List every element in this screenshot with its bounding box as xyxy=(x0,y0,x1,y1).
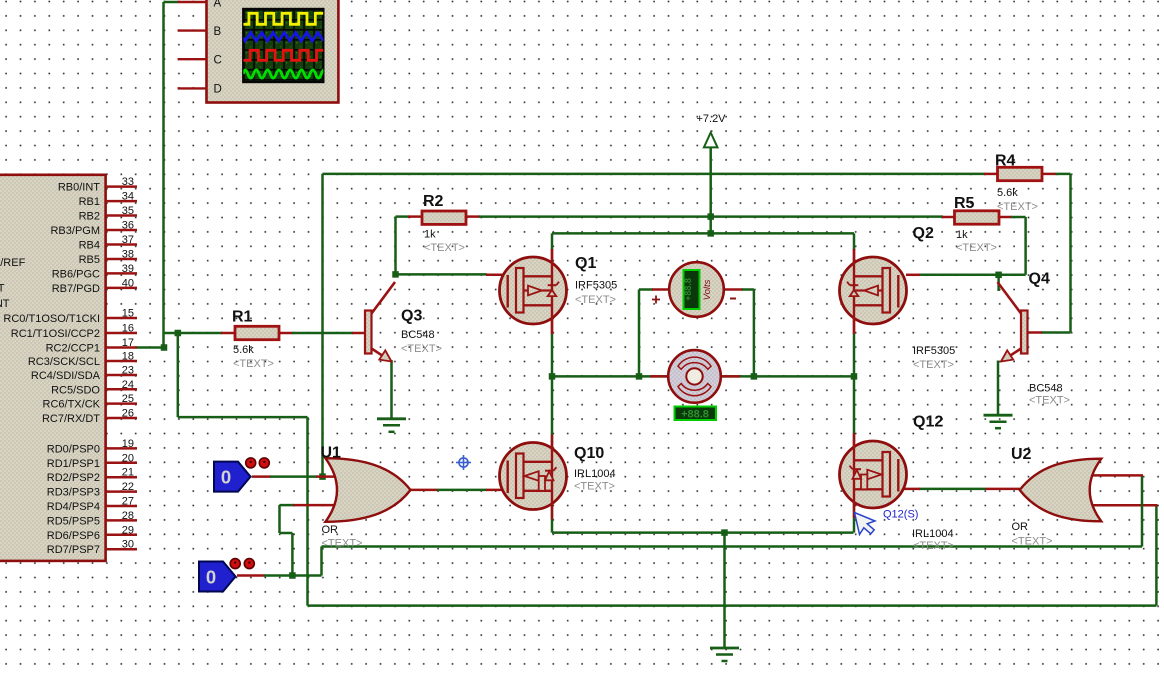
svg-text:30: 30 xyxy=(122,539,134,551)
wire bottom rail y605 to U2 input B xyxy=(308,604,1157,607)
transistor Q1 IRF5305 p-mosfet xyxy=(500,249,567,334)
svg-text:28: 28 xyxy=(122,510,134,522)
wire staircase up 2 xyxy=(278,505,281,533)
node junction source rail xyxy=(707,230,714,237)
svg-text:RC5/SDO: RC5/SDO xyxy=(51,384,100,396)
wire R5 left pin xyxy=(942,216,957,219)
wire Q3 base pin xyxy=(352,332,366,335)
wire Q4 base horizontal xyxy=(1041,331,1071,334)
svg-text:5.6k: 5.6k xyxy=(233,344,254,356)
wire voltmeter right vertical xyxy=(753,290,756,377)
svg-text:<TEXT>: <TEXT> xyxy=(956,242,997,254)
pin 40 RB7/PGD xyxy=(52,277,137,295)
pin 37 RB4 xyxy=(79,234,137,252)
svg-text:39: 39 xyxy=(122,263,134,275)
motor M1 xyxy=(668,350,721,403)
wire logic state 1 to U1 input A red xyxy=(252,475,271,478)
transistor Q12 IRL1004 n-mosfet mirrored xyxy=(840,433,907,518)
svg-text:RD7/PSP7: RD7/PSP7 xyxy=(47,544,100,556)
svg-text:34: 34 xyxy=(122,191,134,203)
wire branch down from RC1 node xyxy=(177,333,180,417)
oscilloscope pin C xyxy=(178,58,208,60)
wire Q12 gate pin xyxy=(897,488,920,491)
voltmeter minus mark xyxy=(730,298,736,300)
svg-text:T: T xyxy=(0,283,5,295)
svg-text:<TEXT>: <TEXT> xyxy=(1012,536,1053,548)
pin 39 RB6/PGC xyxy=(52,263,137,281)
wire Q1 gate pin xyxy=(486,274,509,277)
node junction R2/Q3 collector/Q1 gate xyxy=(392,271,399,278)
svg-text:20: 20 xyxy=(122,452,134,464)
svg-text:19: 19 xyxy=(122,438,134,450)
wire Q10 drain from motor rail xyxy=(551,376,554,442)
svg-text:<TEXT>: <TEXT> xyxy=(574,481,615,493)
oscilloscope pin A xyxy=(178,1,208,3)
svg-text:RD3/PSP3: RD3/PSP3 xyxy=(47,487,100,499)
svg-text:RB0/INT: RB0/INT xyxy=(58,182,100,194)
logic state input 2 xyxy=(199,562,236,592)
svg-text:NT: NT xyxy=(0,298,10,310)
node junction supply rail xyxy=(707,213,714,220)
svg-text:15: 15 xyxy=(122,308,134,320)
origin marker crosshair xyxy=(456,455,471,470)
svg-text:B: B xyxy=(214,26,222,38)
wire voltmeter right horizontal xyxy=(742,288,754,291)
svg-text:R2: R2 xyxy=(423,193,444,210)
svg-text:<TEXT>: <TEXT> xyxy=(322,538,363,550)
logic state 1 indicator dots xyxy=(246,458,270,468)
wire voltmeter left vertical xyxy=(638,290,641,377)
svg-text:33: 33 xyxy=(122,176,134,188)
oscilloscope pin D xyxy=(178,87,208,89)
wire Q4 collector vertical xyxy=(997,275,1000,291)
oscilloscope body xyxy=(207,0,339,103)
wire right vertical up to U2 input A xyxy=(1141,475,1144,546)
svg-text:21: 21 xyxy=(122,467,134,479)
pin 24 RC5/SDO xyxy=(51,379,137,397)
svg-text:22: 22 xyxy=(122,481,134,493)
svg-text:R5: R5 xyxy=(954,195,975,212)
wire lower logic to y546 corner xyxy=(292,574,321,577)
resistor R2 xyxy=(422,211,466,224)
wire y546 rail to U2 input A xyxy=(322,545,1143,548)
wire voltmeter right pin xyxy=(723,288,743,291)
svg-text:RC6/TX/CK: RC6/TX/CK xyxy=(43,399,101,411)
pin 26 RC7/RX/DT xyxy=(42,408,137,426)
svg-text:R1: R1 xyxy=(232,309,253,326)
wire bottom H-bridge rail xyxy=(552,531,854,534)
svg-text:RD1/PSP1: RD1/PSP1 xyxy=(47,458,100,470)
voltmeter xyxy=(669,262,724,317)
node junction motor rail right xyxy=(851,373,858,380)
oscilloscope screen xyxy=(243,9,323,82)
svg-text:<TEXT>: <TEXT> xyxy=(1029,395,1070,407)
wire R2 left pin xyxy=(408,215,423,218)
pin 15 RC0/T1OSO/T1CKI xyxy=(3,308,137,326)
wire scope channel A stub xyxy=(164,1,179,4)
pin 17 RC2/CCP1 xyxy=(46,337,137,355)
transistor Q10 IRL1004 n-mosfet xyxy=(500,435,567,520)
svg-text:BC548: BC548 xyxy=(1029,383,1063,395)
svg-text:Q2: Q2 xyxy=(913,225,934,242)
oscilloscope pin B xyxy=(178,29,208,31)
wire Q2 gate node horizontal xyxy=(919,274,1026,277)
wire ground stem xyxy=(723,533,726,649)
wire Q2 source to motor rail xyxy=(853,334,856,377)
wire U1 input B pin xyxy=(293,504,338,507)
wire R5 corner down to Q2 gate node xyxy=(1024,217,1027,275)
svg-text:R4: R4 xyxy=(995,153,1016,170)
svg-text:+88.8: +88.8 xyxy=(681,408,709,420)
svg-text:<TEXT>: <TEXT> xyxy=(424,242,465,254)
svg-text:RC0/T1OSO/T1CKI: RC0/T1OSO/T1CKI xyxy=(3,313,100,325)
wire motor rail xyxy=(552,375,854,378)
wire U1 output pin xyxy=(410,489,438,492)
wire staircase to U1 input B xyxy=(280,504,295,507)
wire R4 right pin xyxy=(1041,173,1056,176)
node junction voltmeter right tap xyxy=(751,373,758,380)
svg-text:1k: 1k xyxy=(956,229,968,241)
logic state 2 indicator dots xyxy=(230,559,254,569)
pin 36 RB3/PGM xyxy=(50,220,137,238)
svg-text:<TEXT>: <TEXT> xyxy=(913,540,954,552)
node junction on RC1 wire at branch xyxy=(175,330,182,337)
svg-text:RC3/SCK/SCL: RC3/SCK/SCL xyxy=(28,356,100,368)
wire corner up to y546 rail xyxy=(320,547,323,576)
wire R1 right lead xyxy=(277,332,293,335)
svg-text:Q12(S): Q12(S) xyxy=(883,509,918,521)
wire Q12 source down xyxy=(853,509,856,533)
svg-text:RC7/RX/DT: RC7/RX/DT xyxy=(42,413,100,425)
svg-text:RB1: RB1 xyxy=(79,196,100,208)
pin 21 RD2/PSP2 xyxy=(47,467,137,485)
voltmeter plus mark xyxy=(652,296,660,304)
wire R4 rail horizontal xyxy=(323,173,986,176)
svg-text:RD6/PSP6: RD6/PSP6 xyxy=(47,530,100,542)
pin 16 RC1/T1OSI/CCP2 xyxy=(11,323,137,341)
svg-text:RD0/PSP0: RD0/PSP0 xyxy=(47,443,100,455)
pin 35 RB2 xyxy=(79,205,137,223)
wire R5 right pin xyxy=(996,216,1012,219)
wire logic state 1 to U1 input A green xyxy=(270,475,317,478)
wire Q2 gate pin xyxy=(906,274,920,277)
svg-text:IRF5305: IRF5305 xyxy=(575,280,617,292)
wire logic state 2 to junction xyxy=(264,574,294,577)
resistor R4 xyxy=(998,167,1043,180)
or-gate U1 xyxy=(325,458,410,522)
svg-text:RC1/T1OSI/CCP2: RC1/T1OSI/CCP2 xyxy=(11,328,100,340)
oscilloscope waveforms A B C D xyxy=(243,13,327,78)
wire right vertical up to U2 input B xyxy=(1155,505,1158,605)
svg-text:RB4: RB4 xyxy=(79,240,100,252)
pin 34 RB1 xyxy=(79,191,137,209)
wire R4 rail left vertical top corner xyxy=(321,174,324,478)
wire R2 left lead connection xyxy=(396,215,410,218)
wire Q1 source to motor rail xyxy=(551,334,554,377)
svg-text:Q12: Q12 xyxy=(913,414,943,431)
ground below Q4 xyxy=(984,415,1013,428)
node wire end pin17 junction xyxy=(161,344,168,351)
resistor R5 xyxy=(955,211,1000,224)
pin 19 RD0/PSP0 xyxy=(47,438,137,456)
wire Q4 emitter to ground xyxy=(997,361,1000,416)
wire Q12 drain from motor rail xyxy=(853,376,856,441)
wire U1 input A pin xyxy=(316,475,336,478)
svg-text:BC548: BC548 xyxy=(401,329,435,341)
pin 28 RD5/PSP5 xyxy=(47,510,137,528)
wire scope channel A vertical from scope to pin17 node xyxy=(162,2,165,349)
svg-text:36: 36 xyxy=(122,220,134,232)
svg-text:<TEXT>: <TEXT> xyxy=(233,358,274,370)
wire voltmeter left horizontal xyxy=(639,288,653,291)
svg-text:RB5: RB5 xyxy=(79,254,100,266)
wire motor right pin xyxy=(721,375,741,378)
node junction motor rail left xyxy=(549,373,556,380)
svg-text:17: 17 xyxy=(122,337,134,349)
microcontroller U3 body xyxy=(0,175,106,561)
svg-text:18: 18 xyxy=(122,351,134,363)
wire U2 output pin xyxy=(985,488,1020,491)
motor rpm display xyxy=(675,407,717,421)
svg-text:0: 0 xyxy=(221,467,231,488)
wire R4 right vertical down to Q4 base xyxy=(1069,174,1072,333)
wire R1 to Q3 base xyxy=(292,332,353,335)
svg-text:Q10: Q10 xyxy=(574,445,604,462)
transistor Q4 BC548 npn mirrored xyxy=(998,282,1028,362)
pin 27 RD4/PSP4 xyxy=(47,496,137,514)
power +7.2V symbol xyxy=(704,133,718,148)
ground below Q3 xyxy=(377,419,406,432)
wire supply rail R2 to R5 xyxy=(479,215,943,218)
svg-text:C: C xyxy=(214,55,222,67)
svg-text:U2: U2 xyxy=(1011,446,1032,463)
svg-text:Q4: Q4 xyxy=(1029,271,1050,288)
svg-text:+7.2V: +7.2V xyxy=(696,113,726,125)
wire long vertical x307 down to bottom rail xyxy=(306,417,309,605)
svg-text:RB3/PGM: RB3/PGM xyxy=(50,225,100,237)
svg-text:<TEXT>: <TEXT> xyxy=(997,201,1038,213)
or-gate U2 mirrored xyxy=(1020,459,1102,522)
pin 20 RD1/PSP1 xyxy=(47,452,137,470)
wire Q2 vertical through symbol xyxy=(853,249,856,334)
svg-text:26: 26 xyxy=(122,408,134,420)
svg-text:RC4/SDI/SDA: RC4/SDI/SDA xyxy=(31,370,101,382)
wire Q3 emitter to ground xyxy=(390,360,393,419)
svg-text:0: 0 xyxy=(206,567,216,588)
svg-text:RB2: RB2 xyxy=(79,211,100,223)
wire Q10 vertical through symbol xyxy=(551,441,554,510)
ground bottom center xyxy=(710,648,739,661)
wire U1 output to Q10 gate xyxy=(437,489,487,492)
svg-text:1k: 1k xyxy=(424,229,436,241)
svg-text:<TEXT>: <TEXT> xyxy=(401,343,442,355)
pin 18 RC3/SCK/SCL xyxy=(28,351,137,369)
svg-text:27: 27 xyxy=(122,496,134,508)
svg-text:16: 16 xyxy=(122,323,134,335)
wire Q12 vertical through symbol xyxy=(853,440,856,509)
pin 25 RC6/TX/CK xyxy=(43,393,137,411)
svg-text:RD5/PSP5: RD5/PSP5 xyxy=(47,515,100,527)
svg-text:RB7/PGD: RB7/PGD xyxy=(52,283,100,295)
wire branch horizontal to x307 xyxy=(178,416,308,419)
wire R1 left lead xyxy=(221,332,236,335)
wire Q1 gate horizontal xyxy=(396,273,488,276)
pin 38 RB5 xyxy=(79,249,137,267)
svg-text:<TEXT>: <TEXT> xyxy=(913,359,954,371)
wire pin17 to scope-A vertical xyxy=(137,346,165,349)
wire Q10 source down xyxy=(551,510,554,533)
wire Q10 gate pin xyxy=(486,489,509,492)
svg-text:IRF5305: IRF5305 xyxy=(913,345,955,357)
wire Q2 drain top xyxy=(853,233,856,250)
wire power +7.2V drop xyxy=(709,147,712,234)
transistor Q2 IRF5305 p-mosfet mirrored xyxy=(840,249,907,334)
svg-text:38: 38 xyxy=(122,249,134,261)
wire source rail Q1 to Q2 xyxy=(552,232,854,235)
svg-text:35: 35 xyxy=(122,205,134,217)
node junction logic state 2 xyxy=(289,572,296,579)
cursor arrow xyxy=(855,513,876,535)
wire U2 upper input pin xyxy=(1088,474,1143,477)
pin 22 RD3/PSP3 xyxy=(47,481,137,499)
resistor R1 xyxy=(235,326,279,339)
wire R2 right pin xyxy=(465,215,480,218)
svg-text:U1: U1 xyxy=(321,445,342,462)
svg-text:25: 25 xyxy=(122,393,134,405)
logic state input 1 xyxy=(214,462,251,492)
wire R2 gate node vertical xyxy=(394,217,397,276)
node junction ground stem xyxy=(721,529,728,536)
svg-text:A: A xyxy=(214,0,222,10)
svg-text:29: 29 xyxy=(122,524,134,536)
svg-text:Volts: Volts xyxy=(702,279,713,300)
svg-text:+88.8: +88.8 xyxy=(683,278,693,301)
svg-text:5.6k: 5.6k xyxy=(997,187,1018,199)
wire Q1 drain top xyxy=(551,233,554,250)
wire R4 to right corner xyxy=(1056,173,1071,176)
svg-text:/REF: /REF xyxy=(0,257,25,269)
svg-text:D: D xyxy=(214,84,222,96)
pin 30 RD7/PSP7 xyxy=(47,539,137,557)
wire motor left pin xyxy=(650,375,669,378)
svg-text:24: 24 xyxy=(122,379,134,391)
svg-text:<TEXT>: <TEXT> xyxy=(575,294,616,306)
svg-text:OR: OR xyxy=(322,524,339,536)
wire U2 output to Q12 gate xyxy=(919,488,986,491)
pin 23 RC4/SDI/SDA xyxy=(31,365,137,383)
svg-text:40: 40 xyxy=(122,277,134,289)
wire voltmeter left pin xyxy=(652,288,670,291)
wire Q1 vertical through symbol xyxy=(551,249,554,334)
svg-text:OR: OR xyxy=(1012,521,1029,533)
wire logic state 2 pin xyxy=(237,574,265,577)
node junction Q2 gate / Q4 collector xyxy=(995,272,1002,279)
node junction U1 input A xyxy=(319,473,326,480)
wire net RC1 horizontal to R1 and Q3 base xyxy=(164,332,223,335)
pin 33 RB0/INT xyxy=(58,176,137,194)
svg-text:Q1: Q1 xyxy=(575,255,596,272)
node junction voltmeter left tap xyxy=(636,373,643,380)
wire Q4 base pin xyxy=(1027,331,1042,334)
oscilloscope screen grid xyxy=(0,0,1,1)
svg-text:RC2/CCP1: RC2/CCP1 xyxy=(46,343,100,355)
svg-text:RB6/PGC: RB6/PGC xyxy=(52,268,100,280)
wire R4 left pin xyxy=(984,173,999,176)
wire U2 lower input pin xyxy=(1088,504,1158,507)
svg-text:Q3: Q3 xyxy=(401,308,422,325)
transistor Q3 BC548 npn xyxy=(365,282,395,362)
svg-text:37: 37 xyxy=(122,234,134,246)
pin 29 RD6/PSP6 xyxy=(47,524,137,542)
svg-text:RD4/PSP4: RD4/PSP4 xyxy=(47,501,100,513)
svg-text:RD2/PSP2: RD2/PSP2 xyxy=(47,472,100,484)
wire R5 to corner xyxy=(1011,216,1026,219)
svg-text:IRL1004: IRL1004 xyxy=(574,468,616,480)
svg-text:23: 23 xyxy=(122,365,134,377)
svg-text:IRL1004: IRL1004 xyxy=(912,528,954,540)
wire staircase left xyxy=(280,532,293,535)
wire staircase up 1 xyxy=(291,533,294,576)
